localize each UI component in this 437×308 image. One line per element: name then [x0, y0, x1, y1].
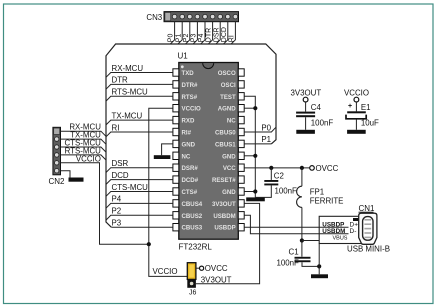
svg-text:RESET#: RESET# — [212, 177, 236, 184]
svg-text:U1: U1 — [178, 52, 189, 61]
svg-text:CBUS0: CBUS0 — [215, 130, 236, 137]
svg-text:GND: GND — [182, 141, 196, 148]
svg-text:DTR: DTR — [206, 28, 213, 42]
wire P4 to CBUS4 — [106, 195, 173, 209]
svg-text:C4: C4 — [311, 103, 322, 112]
svg-text:VCCIO: VCCIO — [153, 267, 178, 276]
svg-text:FERRITE: FERRITE — [310, 197, 344, 206]
svg-text:FT232RL: FT232RL — [179, 242, 213, 251]
svg-text:DCD: DCD — [221, 27, 228, 42]
CN1 pin1 tab — [353, 218, 359, 221]
connector CN1 symbol box — [319, 216, 366, 243]
wire jumper to OVCC terminal — [196, 264, 228, 273]
wire GND pin8 to chain — [244, 155, 255, 157]
wire VBUS to CN1 — [302, 240, 343, 242]
svg-text:OVCC: OVCC — [316, 164, 339, 173]
jumper J6 — [187, 263, 196, 297]
U1 right pin boxes — [238, 69, 244, 231]
svg-text:P2: P2 — [112, 207, 122, 216]
svg-text:C1: C1 — [289, 247, 299, 256]
wire RX-MCU from CN2 — [61, 123, 107, 137]
wire DTR from CN3 — [206, 22, 213, 44]
connector CN3 — [146, 12, 238, 23]
svg-text:J6: J6 — [189, 290, 197, 297]
wire VCCIO from CN2 — [61, 154, 149, 244]
wire DCD from CN3 — [221, 22, 228, 44]
svg-text:VCCIO: VCCIO — [344, 88, 369, 97]
wire DSR to DSR# — [106, 159, 173, 173]
svg-text:NC: NC — [182, 153, 191, 160]
svg-text:3V3OUT: 3V3OUT — [201, 276, 232, 285]
IC U1 FT232RL body — [178, 52, 239, 252]
svg-text:P3: P3 — [191, 34, 198, 43]
ground at U1 left GND — [154, 155, 171, 159]
wire RI to RI# — [106, 123, 173, 137]
svg-text:CN2: CN2 — [49, 177, 66, 186]
wire VCCIO pin to jumper — [149, 108, 188, 276]
svg-text:CBUS1: CBUS1 — [215, 141, 236, 148]
wire VCC to OVCC rail — [244, 167, 309, 169]
svg-text:VCCIO: VCCIO — [182, 106, 202, 113]
svg-text:DTR: DTR — [112, 76, 129, 85]
wire P4 from CN3 — [198, 22, 205, 44]
wire DSR from CN3 — [213, 22, 220, 44]
wire RI from CN3 — [229, 22, 236, 44]
node VCCIO junction — [147, 242, 151, 246]
svg-text:DCD: DCD — [112, 171, 129, 180]
wire USBDP to CN1 — [244, 226, 348, 228]
ground at C4 — [296, 130, 315, 134]
wire RTS-MCU from CN2 — [61, 146, 107, 160]
wire DCD to DCD# — [106, 171, 173, 185]
wire RX-MCU to TXD — [106, 64, 173, 78]
node OVCC terminal — [310, 164, 339, 173]
svg-text:100nF: 100nF — [275, 186, 298, 195]
wire P3 from CN3 — [191, 22, 198, 44]
ground at E1 — [347, 130, 366, 134]
svg-text:P1: P1 — [175, 34, 182, 43]
wire P0 to CBUS0 — [244, 123, 276, 132]
svg-text:OSCI: OSCI — [221, 82, 236, 89]
wire 3V3OUT pin to jumper — [196, 203, 260, 283]
svg-text:DSR: DSR — [112, 159, 129, 168]
capacitor E1 with VCCIO terminal — [344, 88, 379, 129]
label CN1 — [359, 204, 376, 213]
svg-text:RX-MCU: RX-MCU — [112, 64, 144, 73]
wire TX-MCU to RXD — [106, 111, 173, 125]
wire TX-MCU from CN2 — [61, 131, 107, 145]
svg-text:VBUS: VBUS — [333, 236, 348, 242]
svg-text:NC: NC — [227, 118, 236, 125]
svg-text:AGND: AGND — [218, 106, 237, 113]
svg-text:FP1: FP1 — [310, 187, 324, 196]
svg-text:E1: E1 — [361, 103, 371, 112]
svg-text:D-: D- — [350, 228, 357, 235]
svg-text:P2: P2 — [183, 34, 190, 43]
capacitor C4 with 3V3OUT terminal — [291, 88, 334, 129]
svg-text:RXD: RXD — [182, 118, 195, 125]
svg-text:P1: P1 — [261, 135, 271, 144]
wire P3 to CBUS3 — [111, 219, 173, 228]
wire RTS-MCU to RTS# — [106, 88, 173, 102]
svg-text:TX-MCU: TX-MCU — [112, 111, 143, 120]
U1 left pin names — [182, 70, 203, 232]
wire P2 from CN3 — [183, 22, 190, 44]
svg-text:TXD: TXD — [182, 70, 195, 77]
node GND8 junction — [253, 154, 257, 158]
CN3 pin circles — [172, 14, 237, 19]
svg-text:RI: RI — [229, 35, 236, 42]
svg-text:RTS-MCU: RTS-MCU — [112, 88, 149, 97]
svg-text:3V3OUT: 3V3OUT — [212, 201, 236, 208]
U1 left pin boxes — [173, 69, 179, 231]
svg-text:10uF: 10uF — [361, 118, 379, 127]
svg-text:P0: P0 — [261, 123, 271, 132]
svg-text:OSCO: OSCO — [218, 70, 236, 77]
svg-text:CN1: CN1 — [359, 204, 376, 213]
wire CTS-MCU to CTS# — [106, 183, 173, 197]
svg-text:DSR: DSR — [213, 27, 220, 42]
wire P0 from CN3 — [168, 22, 175, 44]
wire CTS-MCU from CN2 — [61, 139, 107, 153]
svg-text:P3: P3 — [112, 219, 122, 228]
svg-text:RTS#: RTS# — [182, 94, 198, 101]
node AGND junction — [253, 106, 257, 110]
bus loop — [106, 44, 276, 227]
svg-text:CBUS2: CBUS2 — [182, 213, 203, 220]
svg-text:CN3: CN3 — [146, 13, 162, 22]
ground at chain bottom — [246, 197, 265, 201]
svg-text:TEST: TEST — [220, 94, 236, 101]
svg-text:+: + — [348, 103, 352, 110]
svg-text:USB MINI-B: USB MINI-B — [347, 244, 390, 253]
inductor FP1 ferrite — [297, 168, 344, 241]
wire P2 to CBUS2 — [106, 207, 173, 221]
wire AGND to chain — [244, 107, 255, 109]
svg-text:P4: P4 — [198, 34, 205, 43]
svg-text:CBUS4: CBUS4 — [182, 201, 203, 208]
svg-text:DSR#: DSR# — [182, 165, 199, 172]
wire GND pin7 to ground — [162, 144, 173, 155]
svg-text:DTR#: DTR# — [182, 82, 199, 89]
svg-text:GND: GND — [222, 153, 236, 160]
ground at CN1 — [311, 274, 328, 278]
connector CN2 — [49, 127, 66, 186]
svg-text:USBDM: USBDM — [322, 228, 345, 235]
wire TEST/AGND/GND chain — [244, 96, 255, 197]
svg-text:CBUS3: CBUS3 — [182, 225, 203, 232]
CN1 pin labels — [322, 221, 358, 241]
connector CN1 mini-USB drawing — [359, 213, 377, 244]
wire DTR to DTR# — [106, 76, 173, 90]
svg-text:VCC: VCC — [223, 165, 236, 172]
svg-text:DCD#: DCD# — [182, 177, 199, 184]
svg-text:P4: P4 — [112, 195, 122, 204]
capacitor C2 — [255, 168, 297, 198]
U1 right pin names — [212, 70, 236, 232]
svg-text:100nF: 100nF — [311, 118, 334, 127]
wire USBDM to CN1 — [244, 215, 348, 234]
svg-text:VCCIO: VCCIO — [76, 154, 101, 163]
wire CN2 pin6 to ground — [61, 171, 71, 178]
wire GND pin11 to chain — [244, 191, 255, 193]
svg-text:USBDP: USBDP — [214, 225, 235, 232]
svg-text:CTS-MCU: CTS-MCU — [112, 183, 149, 192]
node C2 junction — [269, 166, 273, 170]
svg-text:OVCC: OVCC — [205, 264, 228, 273]
svg-text:CTS#: CTS# — [182, 189, 198, 196]
svg-text:P0: P0 — [168, 34, 175, 43]
ground at CN2 — [69, 178, 84, 182]
node C1 ground junction — [317, 264, 321, 268]
wire P1 to CBUS1 — [244, 135, 271, 144]
svg-text:RI: RI — [112, 123, 120, 132]
wire CN1 shield to ground — [318, 244, 320, 275]
wire P1 from CN3 — [175, 22, 182, 44]
svg-text:RI#: RI# — [182, 130, 192, 137]
svg-text:100nF: 100nF — [277, 258, 300, 267]
svg-text:USBDM: USBDM — [213, 213, 235, 220]
node VBUS junction — [300, 238, 304, 242]
svg-text:C2: C2 — [274, 172, 284, 181]
svg-text:GND: GND — [222, 189, 236, 196]
node ferrite junction — [300, 166, 304, 170]
svg-text:3V3OUT: 3V3OUT — [291, 88, 322, 97]
node GND11 junction — [253, 189, 257, 193]
capacitor C1 — [277, 241, 320, 268]
